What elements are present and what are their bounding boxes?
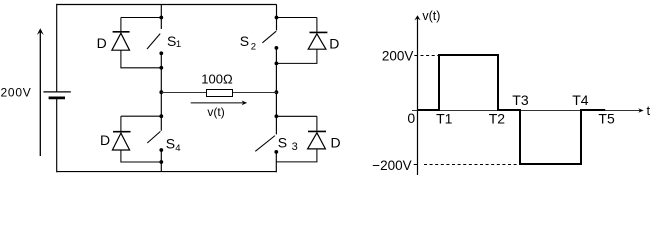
svg-text:S: S bbox=[166, 136, 175, 152]
svg-text:T2: T2 bbox=[489, 110, 506, 126]
wire: right leg top (rail to S2) bbox=[276, 5, 278, 31]
wire: right leg load node to S3 bbox=[275, 92, 277, 134]
diode D1 branch top wire bbox=[121, 18, 161, 32]
diode D3 branch top wire bbox=[276, 116, 317, 131]
waveform square wave v(t) bbox=[418, 55, 606, 164]
node: load node right bbox=[275, 90, 279, 94]
waveform v axis bbox=[414, 15, 420, 175]
svg-text:T4: T4 bbox=[572, 92, 589, 108]
svg-text:100Ω: 100Ω bbox=[201, 71, 233, 86]
arrow: load voltage reference bbox=[191, 101, 247, 106]
svg-text:v(t): v(t) bbox=[422, 9, 440, 23]
label S3 bbox=[278, 134, 298, 153]
switch S1 blade bbox=[147, 34, 160, 49]
label S1 bbox=[167, 33, 181, 50]
switch S3 blade bbox=[255, 136, 275, 152]
waveform t axis bbox=[412, 108, 644, 113]
label T4 bbox=[572, 92, 589, 108]
label S2 bbox=[240, 33, 256, 52]
wire: left leg S1 to load node bbox=[160, 53, 162, 92]
wire: left leg top (rail to S1) bbox=[160, 5, 162, 30]
svg-text:S: S bbox=[278, 134, 287, 150]
tick -200V on v axis bbox=[414, 164, 418, 166]
label 200V level bbox=[382, 49, 414, 64]
label D (D1) bbox=[97, 35, 107, 51]
wire: left leg S4 to bottom rail bbox=[160, 150, 162, 172]
diode D1 bbox=[112, 32, 130, 50]
label S4 bbox=[166, 136, 181, 155]
label t axis bbox=[647, 103, 651, 118]
wire: left rail lower segment bbox=[56, 98, 58, 172]
diode D3 branch bottom wire bbox=[276, 149, 317, 162]
node: junction right leg / D3 branch bbox=[275, 114, 279, 118]
svg-text:D: D bbox=[100, 132, 110, 148]
switch S1 lower contact bbox=[159, 51, 163, 55]
label -200V level bbox=[372, 158, 411, 173]
svg-text:T1: T1 bbox=[436, 110, 453, 126]
svg-text:200V: 200V bbox=[382, 49, 414, 64]
switch S2 blade bbox=[262, 31, 276, 43]
svg-text:T5: T5 bbox=[598, 111, 615, 127]
svg-text:4: 4 bbox=[175, 143, 180, 154]
svg-text:0: 0 bbox=[407, 110, 415, 126]
wire: right leg S2 to load node bbox=[275, 48, 277, 92]
resistor R load 100ohm bbox=[207, 90, 233, 97]
diode D2 branch top wire bbox=[277, 18, 317, 32]
node: junction left leg / D1 loop bottom bbox=[159, 66, 163, 70]
diode D4 bbox=[112, 132, 130, 150]
label D (D2) bbox=[329, 35, 339, 51]
label T5 bbox=[598, 111, 615, 127]
label 100ohm bbox=[201, 71, 233, 86]
svg-text:v(t): v(t) bbox=[207, 105, 224, 119]
dashed line 200V level bbox=[421, 55, 440, 57]
wire: top rail bbox=[57, 4, 277, 6]
svg-text:1: 1 bbox=[176, 39, 181, 50]
label 0 origin bbox=[407, 110, 415, 126]
svg-text:3: 3 bbox=[292, 141, 298, 153]
svg-text:T3: T3 bbox=[512, 92, 529, 108]
svg-text:D: D bbox=[329, 35, 339, 51]
label T2 bbox=[489, 110, 506, 126]
switch S3 lower contact bbox=[274, 150, 278, 154]
node: junction right leg / D2 loop bottom bbox=[275, 62, 279, 66]
label 200V bbox=[1, 86, 32, 100]
node: junction left leg / D4 branch bbox=[159, 114, 163, 118]
switch S4 blade bbox=[147, 131, 160, 143]
node: junction right leg / D2 branch bbox=[275, 16, 279, 20]
wire: load wire bbox=[161, 92, 276, 94]
wire: right leg S3 to bottom rail bbox=[275, 152, 277, 172]
node: junction left leg / D4 loop bottom bbox=[159, 160, 163, 164]
label T3 bbox=[512, 92, 529, 108]
label T1 bbox=[436, 110, 453, 126]
polarity arrow for source bbox=[37, 28, 44, 156]
node: load node left bbox=[159, 90, 163, 94]
label v(t) load bbox=[207, 105, 224, 119]
svg-text:2: 2 bbox=[251, 41, 256, 52]
wire: left leg load node to S4 bbox=[160, 92, 162, 131]
diode D1 branch bottom wire bbox=[121, 50, 161, 68]
svg-text:200V: 200V bbox=[1, 86, 32, 100]
diode D4 branch top wire bbox=[121, 116, 161, 131]
svg-text:D: D bbox=[331, 134, 341, 150]
label v(t) axis bbox=[422, 9, 440, 23]
svg-text:−200V: −200V bbox=[372, 158, 411, 173]
label D (D4) bbox=[100, 132, 110, 148]
diode D2 bbox=[308, 32, 327, 49]
voltage source V1 battery bbox=[43, 92, 70, 98]
switch S4 lower contact bbox=[159, 148, 163, 152]
wire: bottom rail bbox=[57, 171, 277, 173]
wire: left rail upper segment bbox=[56, 4, 58, 92]
diode D3 bbox=[308, 131, 326, 149]
label D (D3) bbox=[331, 134, 341, 150]
diode D2 branch bottom wire bbox=[276, 49, 317, 63]
node: junction left leg / D1 branch bbox=[159, 16, 163, 20]
svg-text:S: S bbox=[240, 33, 249, 49]
tick 200V on v axis bbox=[414, 55, 417, 57]
switch S2 lower contact bbox=[275, 46, 279, 50]
diode D4 branch bottom wire bbox=[121, 150, 161, 162]
svg-text:t: t bbox=[647, 103, 651, 118]
dashed line -200V level bbox=[424, 164, 519, 166]
svg-text:D: D bbox=[97, 35, 107, 51]
